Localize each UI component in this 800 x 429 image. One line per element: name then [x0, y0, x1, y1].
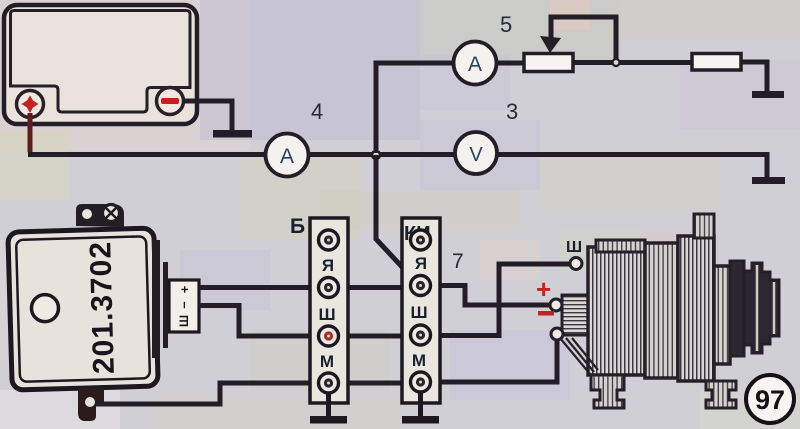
regulator top bracket: [76, 204, 124, 227]
generator terminal Sh: [570, 258, 582, 270]
generator front section: [678, 236, 714, 381]
generator brush leads: [560, 338, 598, 374]
generator pulley: [744, 263, 779, 353]
terminal strip KI: [402, 218, 464, 424]
wire: plus rail to ammeter 4: [28, 152, 266, 157]
B terminal Sh: [319, 326, 339, 346]
svg-text:3: 3: [506, 99, 518, 124]
svg-text:Б: Б: [290, 215, 305, 238]
svg-text:+: +: [177, 285, 192, 293]
generator terminal minus: [551, 328, 563, 340]
generator right foot: [706, 381, 736, 408]
regulator side plate: [152, 240, 168, 358]
regulator connector block: [169, 280, 199, 332]
wire: rheostat to resistor: [573, 60, 692, 65]
svg-text:М: М: [412, 351, 426, 370]
wire: regulator M to M row: [96, 383, 410, 404]
ammeter A 4: [266, 134, 309, 177]
svg-text:A: A: [280, 145, 294, 168]
wire: ammeter 4 to node: [309, 152, 377, 157]
node on wiper tap: [613, 59, 620, 66]
wire: regulator Sh to Sh row: [199, 306, 410, 337]
label minus (generator): [538, 311, 554, 316]
node junction: [372, 151, 380, 159]
page number 97: [746, 375, 794, 423]
B terminal Ya: [319, 278, 339, 298]
wire: regulator + to Ya row: [199, 285, 410, 290]
generator left foot: [591, 375, 624, 408]
svg-text:97: 97: [755, 385, 785, 415]
svg-text:7: 7: [452, 250, 464, 273]
battery plus terminal: [17, 91, 44, 118]
svg-text:201.3702: 201.3702: [84, 241, 121, 375]
B terminal M: [319, 373, 339, 393]
svg-text:Я: Я: [415, 254, 427, 273]
wire: resistor to ground: [741, 62, 767, 91]
wire: M row KI to generator minus: [430, 340, 557, 382]
KI terminal M: [411, 372, 431, 392]
ground (B strip): [310, 416, 347, 424]
generator rear section: [588, 247, 645, 375]
svg-text:+: +: [536, 274, 551, 304]
svg-text:4: 4: [311, 99, 323, 124]
wire: B strip to ground: [326, 393, 331, 417]
regulator mounting hole: [31, 294, 59, 322]
battery minus terminal: [157, 88, 184, 115]
wire: battery minus to ground: [183, 101, 232, 130]
KI terminal 1: [411, 230, 431, 250]
battery GB: [4, 5, 197, 124]
B terminal 1: [319, 230, 339, 250]
generator top boss: [694, 214, 714, 238]
svg-text:Ш: Ш: [566, 239, 582, 256]
rheostat wiper arrow: [540, 36, 561, 53]
wire: node to voltmeter: [376, 152, 455, 157]
ground (battery): [213, 130, 252, 138]
rheostat wiper arm: [551, 17, 616, 61]
generator stator section: [645, 243, 678, 378]
svg-text:–: –: [176, 301, 191, 308]
svg-text:Ш: Ш: [410, 303, 427, 322]
wire: Ya row KI to generator plus: [430, 286, 549, 306]
svg-text:Ш: Ш: [318, 305, 335, 324]
voltage regulator 201.3702 body: [8, 228, 158, 390]
generator terminal plus: [550, 299, 562, 311]
ground (KI strip): [402, 416, 439, 424]
svg-text:М: М: [320, 352, 334, 371]
generator fan disc: [730, 261, 744, 356]
svg-text:Я: Я: [322, 256, 334, 275]
svg-text:A: A: [468, 53, 482, 76]
svg-text:V: V: [469, 144, 483, 166]
bolt symbol: [103, 205, 120, 222]
ammeter A 5: [454, 42, 497, 85]
KI terminal Ya: [411, 276, 431, 296]
wire: Sh row KI to generator Sh: [430, 264, 570, 336]
resistor body: [692, 54, 741, 71]
voltmeter V 3: [455, 132, 497, 174]
svg-text:5: 5: [500, 12, 512, 37]
wire: voltmeter to right ground: [497, 155, 767, 179]
ground (voltmeter rail): [752, 177, 785, 184]
wire: battery plus down: [28, 113, 33, 152]
KI terminal Sh: [411, 325, 431, 345]
rheostat 5 body: [524, 54, 573, 72]
generator brush end cap: [562, 295, 592, 335]
wire: node up branch: [376, 63, 454, 153]
wire: KI strip to ground: [418, 392, 423, 417]
wire: ammeter 5 to rheostat: [497, 61, 525, 66]
terminal strip B: [290, 215, 348, 424]
svg-text:Ш: Ш: [177, 315, 191, 327]
regulator bottom hook: [78, 388, 104, 421]
generator body: [560, 214, 779, 408]
generator bearing collar: [714, 266, 730, 364]
wire: node down to KI Ya terminal: [376, 155, 418, 284]
ground (resistor): [752, 91, 784, 98]
